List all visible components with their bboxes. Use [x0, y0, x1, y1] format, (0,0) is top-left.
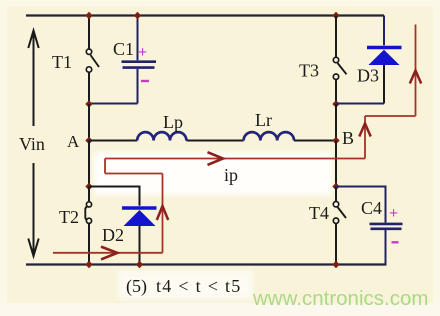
red arrow up (D2) [157, 206, 168, 220]
wire red current path bottom [53, 252, 163, 254]
node T3/D3 junction [332, 100, 339, 107]
svg-text:+: + [138, 44, 147, 61]
inductor Lp [137, 132, 186, 140]
Vin source arrow down [28, 163, 38, 256]
wire T1 bottom to C1 node [88, 72, 90, 104]
wire A to Lp [89, 140, 137, 142]
wire red D3 riser [415, 25, 417, 117]
wire T1 branch top [88, 16, 90, 49]
svg-text:C4: C4 [361, 198, 382, 218]
node T2/D2 junction [85, 183, 92, 190]
svg-text:B: B [342, 128, 354, 148]
node bottom bus T2 [85, 261, 92, 268]
diode D3 [367, 48, 402, 66]
wire node to T2 [88, 187, 90, 202]
svg-text:T3: T3 [299, 61, 319, 81]
svg-text:+: + [389, 205, 398, 222]
wire B to T4 node [335, 141, 337, 187]
svg-text:Lp: Lp [163, 112, 183, 132]
svg-text:(5): (5) [126, 276, 147, 297]
wire red B riser [364, 116, 366, 159]
node T4/C4 junction [332, 183, 339, 190]
svg-text:t4 < t < t5: t4 < t < t5 [156, 276, 242, 296]
svg-text:A: A [67, 132, 80, 151]
red arrow right (ip) [208, 152, 224, 165]
wire top bus [26, 14, 384, 16]
wire Lr to B [294, 140, 336, 142]
wire bottom bus [26, 263, 387, 265]
wire red ip line [105, 158, 365, 160]
red arrow up (D3) [410, 71, 421, 84]
wire T4 to bottom bus [335, 223, 337, 264]
diode D2 [122, 208, 157, 226]
Vin source arrow up [28, 31, 38, 127]
node B [332, 137, 339, 144]
switch T4 [333, 202, 346, 224]
wire D3 bottom to T3 node [383, 65, 385, 104]
wire A to T2 node [88, 141, 90, 187]
wire node to T4 [335, 187, 337, 202]
svg-text:Lr: Lr [255, 110, 272, 130]
node top bus T1 [85, 12, 92, 19]
wire red top jog right [365, 115, 416, 117]
switch T2 (closed) [85, 202, 91, 224]
node bottom bus D2 [136, 261, 143, 268]
svg-text:Vin: Vin [19, 134, 45, 154]
node C1/T1 junction [85, 100, 92, 107]
switch T3 [333, 57, 346, 79]
wire red current path D2 riser [162, 174, 164, 253]
red arrow right (bottom) [101, 247, 117, 260]
svg-text:T4: T4 [309, 203, 329, 223]
svg-text:T1: T1 [52, 52, 72, 72]
inductor Lr [244, 132, 294, 140]
svg-text:D3: D3 [357, 66, 379, 86]
wire T3 node to node B [335, 104, 337, 141]
node bottom bus T4 [332, 261, 339, 268]
wire Lp to Lr [186, 140, 243, 142]
wire red jog up [104, 159, 106, 174]
wire red jog left [105, 173, 163, 175]
red arrow up (B) [359, 124, 370, 137]
node A [85, 137, 92, 144]
svg-text:ip: ip [224, 165, 238, 185]
svg-text:T2: T2 [59, 207, 79, 227]
capacitor C1 [89, 16, 156, 104]
wire D3 branch (loop) [383, 16, 385, 46]
switch T1 [86, 49, 99, 72]
node top bus T3 [332, 12, 339, 19]
svg-text:www.cntronics.com: www.cntronics.com [252, 287, 428, 310]
svg-text:C1: C1 [113, 39, 134, 59]
wire T3 to node [335, 80, 337, 105]
svg-text:D2: D2 [102, 225, 124, 245]
C4 minus [392, 241, 399, 243]
capacitor C4 [336, 187, 403, 265]
wire D2 branch top [89, 187, 140, 206]
wire D2 to bottom bus [139, 226, 141, 265]
wire T3 branch top [335, 16, 337, 58]
wire T2 to bottom bus [88, 224, 90, 265]
C1 minus [141, 80, 149, 82]
node top bus C1 [134, 12, 141, 19]
wire T1 node to node A [88, 104, 90, 141]
